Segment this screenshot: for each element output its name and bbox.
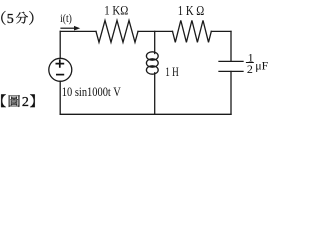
resistor R2: [173, 20, 212, 42]
inductor L1 coil loop 3: [146, 66, 158, 74]
svg-text:i(t): i(t): [60, 11, 72, 25]
capacitor C1 bottom plate: [219, 70, 243, 72]
wire junction node B down to inductor L1: [154, 31, 156, 53]
current arrow i(t): [60, 26, 80, 31]
capacitor C1 top plate: [219, 60, 243, 62]
bottom wire: [60, 113, 231, 115]
svg-text:1 H: 1 H: [165, 64, 179, 79]
wire R1 to junction node B: [138, 30, 173, 32]
source V1 minus sign: [56, 74, 64, 76]
svg-text:2: 2: [247, 62, 253, 76]
problem score label (5 分): [1, 11, 33, 27]
figure label 【圖 2】: [1, 94, 35, 109]
svg-text:μF: μF: [255, 59, 268, 73]
wire left side from node A down to source V1: [59, 31, 61, 58]
inductor L1 coil loop 1: [146, 52, 158, 60]
svg-text:5: 5: [7, 12, 14, 27]
svg-text:2: 2: [22, 95, 29, 110]
source V1 plus sign: [56, 59, 65, 67]
wire capacitor C1 to bottom-right corner: [230, 72, 232, 115]
svg-text:1 KΩ: 1 KΩ: [104, 2, 128, 17]
wire R2 to top-right corner: [211, 30, 231, 32]
wire right side down to capacitor C1: [230, 31, 232, 61]
inductor L1 coil loop 2: [146, 59, 158, 67]
capacitor C1 value fraction bar: [246, 62, 254, 64]
wire source V1 to bottom-left corner: [59, 81, 61, 114]
voltage source V1 circle: [49, 58, 72, 81]
svg-text:1 K Ω: 1 K Ω: [178, 3, 205, 18]
resistor R1: [96, 20, 138, 42]
svg-text:10 sin1000t V: 10 sin1000t V: [62, 85, 121, 99]
wire top-left from node A to resistor R1: [60, 30, 96, 32]
wire inductor L1 to bottom wire: [154, 73, 156, 115]
